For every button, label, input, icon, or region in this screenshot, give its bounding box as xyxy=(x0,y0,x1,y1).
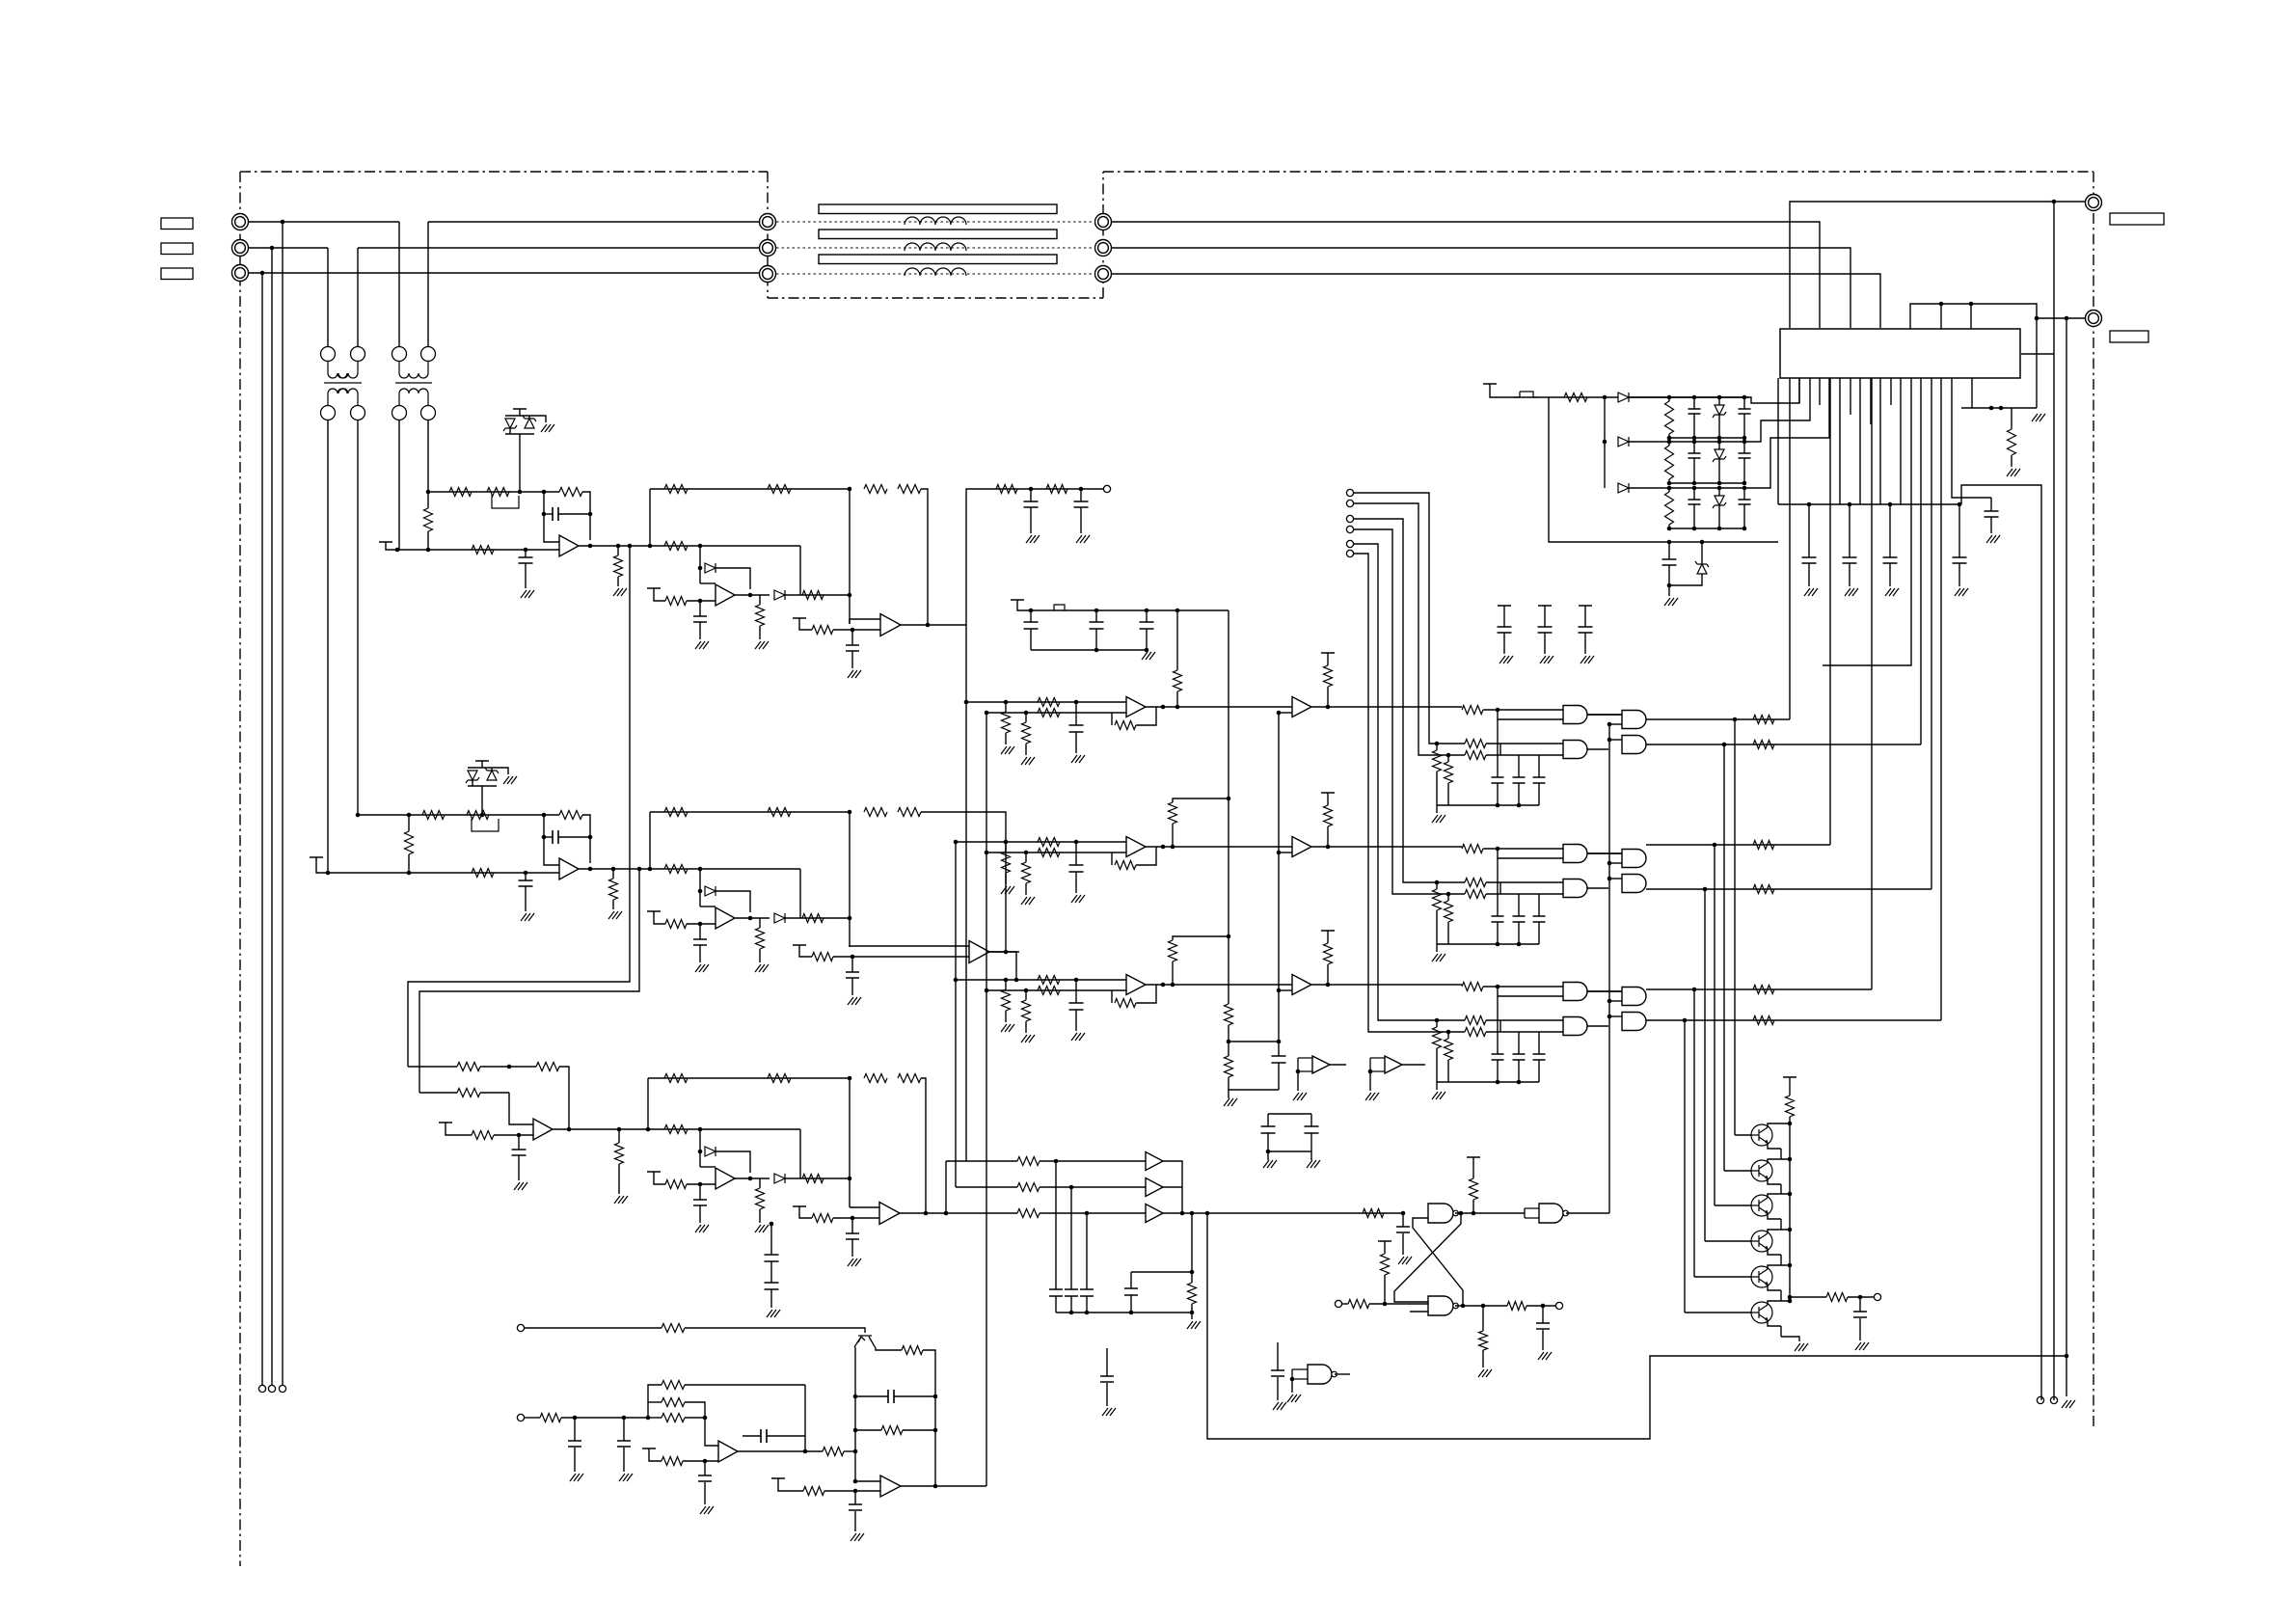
wire xyxy=(648,1417,662,1419)
terminal trip out xyxy=(1555,1302,1562,1309)
capacitor C ch1 o2 xyxy=(1074,501,1089,507)
wire xyxy=(699,924,701,939)
wire pin to H6 xyxy=(1940,378,1942,1020)
capacitor C19 xyxy=(1124,1288,1138,1295)
wire xyxy=(1718,505,1720,528)
resistor R ch3 f3 xyxy=(864,1074,887,1083)
wire pin k3 xyxy=(1900,378,1902,504)
junction xyxy=(1094,648,1099,653)
ground n4 xyxy=(1287,1394,1301,1402)
wire xyxy=(1075,1010,1077,1031)
junction xyxy=(1326,845,1331,850)
wire cross b xyxy=(1413,1218,1463,1306)
wire div bottom xyxy=(1229,1077,1279,1090)
junction xyxy=(1717,527,1722,531)
junction xyxy=(1807,502,1812,507)
wire xyxy=(1447,1032,1449,1039)
wire xyxy=(1668,479,1670,483)
resistor R ch3 load xyxy=(756,1188,765,1209)
AND gate U H1 xyxy=(1622,711,1646,729)
wire ch2 to sum xyxy=(785,917,850,919)
ground xyxy=(848,997,861,1005)
wire bus R to IC xyxy=(1111,222,1820,328)
wire xyxy=(1518,755,1520,777)
supply V19 xyxy=(1783,1076,1796,1078)
label plate output - xyxy=(2110,331,2148,342)
wire xyxy=(1075,732,1077,753)
wire xyxy=(1025,744,1027,755)
wire xyxy=(518,1135,520,1150)
junction xyxy=(1667,440,1672,445)
resistor R52 xyxy=(662,1414,685,1422)
wire xyxy=(1693,414,1695,438)
wire tvs bottom xyxy=(505,433,534,435)
junction xyxy=(542,813,547,818)
wire ch2 out3 xyxy=(989,951,1019,953)
wire xyxy=(1130,1295,1132,1313)
wire xyxy=(1327,653,1329,665)
wire xyxy=(528,416,530,419)
op-amp U ch2 out xyxy=(969,941,989,963)
wire ch1 sum up xyxy=(849,489,851,624)
wire xyxy=(685,1417,705,1419)
supply V16 xyxy=(1321,652,1335,654)
resistor R ch1 a xyxy=(449,488,472,497)
wire out stage xyxy=(1790,1296,1826,1298)
terminal ctrl 2 xyxy=(1346,500,1353,506)
junction xyxy=(1054,1159,1059,1164)
wire xyxy=(1668,442,1670,446)
wire xyxy=(946,1160,1017,1162)
ground xyxy=(1001,886,1014,894)
wire xyxy=(1327,687,1329,707)
ground ch3 ref xyxy=(514,1182,527,1190)
capacitor C2 xyxy=(1843,557,1857,563)
ground xyxy=(1499,656,1513,663)
capacitor C n4 xyxy=(1271,1370,1284,1376)
capacitor C ch3 ref xyxy=(512,1150,527,1155)
wire xyxy=(1279,989,1292,991)
wire x2 out xyxy=(1402,1064,1425,1066)
wire xyxy=(1584,606,1586,627)
wire xyxy=(1369,1303,1428,1305)
wire xyxy=(1436,882,1438,889)
buffer U S2 xyxy=(1146,1178,1163,1197)
resistor R ch1 burden xyxy=(424,508,433,531)
capacitor C10 xyxy=(1140,622,1154,629)
wire pin cap xyxy=(1958,504,1960,557)
junction xyxy=(1517,942,1522,947)
wire xyxy=(480,1092,509,1094)
zener D ladder2 xyxy=(1713,449,1726,462)
wire pin s3 xyxy=(1870,378,1872,424)
wire xyxy=(1780,1149,1782,1159)
wire base Q6 xyxy=(1685,1312,1751,1313)
resistor R7 xyxy=(1038,838,1060,847)
resistor R22 xyxy=(1017,1183,1040,1192)
AND gate U L4 xyxy=(1563,880,1587,898)
wire xyxy=(1718,442,1720,449)
capacitor C27 xyxy=(1513,1054,1526,1060)
wire bus T to IC xyxy=(1111,274,1880,328)
ground tvs1 xyxy=(541,424,554,432)
junction xyxy=(281,220,285,225)
ground xyxy=(1432,954,1445,961)
inductor L2 winding xyxy=(905,243,966,251)
wire ch1 to ch3 xyxy=(408,546,630,1067)
wire xyxy=(1497,996,1499,1054)
junction xyxy=(542,835,547,840)
ground cap mid xyxy=(1102,1408,1116,1416)
wire xyxy=(1447,755,1449,762)
terminal out B xyxy=(2050,1396,2057,1403)
wire xyxy=(1693,504,1695,528)
junction xyxy=(1607,722,1612,727)
wire xyxy=(1518,1060,1520,1082)
diode D feed1 xyxy=(1618,392,1629,402)
capacitor C7 xyxy=(1579,627,1593,633)
terminal ctrl 6 xyxy=(1346,550,1353,556)
junction xyxy=(1969,302,1974,307)
wire ch3 fb drop xyxy=(559,1067,569,1129)
wire xyxy=(1436,1048,1438,1082)
wire xyxy=(1025,990,1027,1000)
junction xyxy=(1517,1080,1522,1085)
wire supply feed xyxy=(1490,384,1749,397)
wire xyxy=(1768,1123,1790,1127)
wire xyxy=(1278,1049,1280,1051)
capacitor C aux xyxy=(1662,559,1677,565)
junction xyxy=(698,1150,703,1154)
wire xyxy=(1743,488,1745,500)
wire to Q5 xyxy=(1693,989,1695,1277)
zener D tvs1a xyxy=(503,419,517,431)
transistor Q1 xyxy=(1751,1124,1772,1146)
resistor R q fb xyxy=(902,1346,923,1355)
wire xyxy=(1327,964,1329,985)
junction xyxy=(270,246,275,251)
terminal R sense xyxy=(258,1385,265,1392)
wire base Q4 xyxy=(1705,1240,1751,1242)
capacitor C ch2 ref xyxy=(693,939,707,945)
wire xyxy=(1310,1151,1312,1160)
wire H4 out xyxy=(1646,888,1931,890)
resistor R6 xyxy=(1324,665,1333,687)
resistor R ch2 in xyxy=(664,865,688,874)
wire ch1 to sum xyxy=(785,594,850,596)
wire xyxy=(2011,455,2012,467)
junction xyxy=(1788,1299,1793,1304)
wire xyxy=(1075,872,1077,893)
diode D ch2 2 xyxy=(774,913,785,923)
junction xyxy=(933,1394,938,1399)
wire xyxy=(2052,201,2054,203)
wire ch3 to sum xyxy=(785,1177,850,1179)
wire xyxy=(855,1395,888,1397)
junction xyxy=(853,1394,858,1399)
wire ch3 fb corner xyxy=(921,1078,926,1213)
wire xyxy=(1369,1071,1371,1091)
wire xyxy=(1718,415,1720,438)
resistor R ch3 fb xyxy=(536,1063,559,1071)
resistor R30 xyxy=(1445,762,1453,783)
wire xyxy=(1291,1379,1293,1393)
wire xyxy=(700,582,716,584)
wire ch1 fb corner xyxy=(921,489,928,625)
wire xyxy=(1131,1271,1192,1273)
capacitor C31 xyxy=(617,1441,631,1447)
capacitor C14 xyxy=(1069,865,1084,872)
junction xyxy=(2035,316,2039,321)
junction xyxy=(1717,481,1722,486)
resistor R8 xyxy=(1038,849,1060,857)
AND gate U H3 xyxy=(1622,850,1646,868)
wire xyxy=(1267,1151,1269,1160)
wire xyxy=(1472,1200,1474,1213)
resistor R1 xyxy=(1038,698,1060,707)
ground n4 cap xyxy=(1273,1402,1286,1410)
ground xyxy=(570,1474,583,1481)
junction xyxy=(1541,1304,1546,1309)
junction xyxy=(853,1449,858,1454)
wire xyxy=(1327,826,1329,847)
wire col b xyxy=(986,713,987,1486)
terminal ctrl 4 xyxy=(1346,526,1353,532)
wire ch2 to ch3 xyxy=(419,869,639,1093)
wire xyxy=(1780,1219,1782,1230)
wire to Q4 xyxy=(1704,889,1706,1241)
junction xyxy=(985,851,989,855)
junction xyxy=(1788,1122,1793,1126)
ground xyxy=(851,1533,864,1541)
junction xyxy=(1939,302,1944,307)
junction xyxy=(426,490,431,495)
wire xyxy=(1538,894,1540,916)
wire xyxy=(1668,565,1670,585)
capacitor C ladder1d xyxy=(1739,409,1751,414)
wire xyxy=(1486,893,1563,895)
wire xyxy=(1095,610,1097,622)
wire xyxy=(561,1417,648,1419)
junction xyxy=(1667,486,1672,491)
wire xyxy=(1075,842,1077,865)
wire base Q1 xyxy=(1735,1134,1751,1136)
wire xyxy=(1436,910,1438,944)
capacitor C ch3 p1 xyxy=(765,1255,779,1261)
resistor R35 xyxy=(1445,901,1453,922)
wire xyxy=(509,428,511,434)
wire xyxy=(1499,1020,1501,1032)
junction xyxy=(1074,840,1079,845)
capacitor C11 xyxy=(1261,1126,1276,1133)
resistor R ch3 ref xyxy=(665,1180,687,1189)
junction xyxy=(524,871,528,876)
capacitor C33 xyxy=(849,1504,862,1510)
wire xyxy=(1055,1296,1057,1313)
wire bus R left xyxy=(249,221,399,223)
wire xyxy=(1176,610,1178,670)
resistor R15 xyxy=(1038,987,1060,995)
wire xyxy=(525,1417,540,1419)
ground IC xyxy=(2032,414,2045,421)
wire xyxy=(1176,691,1178,707)
wire H3 out xyxy=(1646,844,1830,846)
junction xyxy=(1069,1185,1074,1190)
capacitor C4 xyxy=(1953,557,1967,563)
wire ch2 down xyxy=(1015,952,1017,980)
wire xyxy=(1544,633,1546,654)
wire ch1 down xyxy=(965,625,967,1161)
junction xyxy=(1742,527,1747,531)
junction xyxy=(853,1479,858,1484)
buffer U X1 xyxy=(1312,1056,1330,1073)
junction xyxy=(698,922,703,927)
junction xyxy=(1004,978,1009,983)
wire xyxy=(1040,1212,1146,1214)
wire xyxy=(612,900,614,909)
junction xyxy=(1029,609,1034,613)
wire xyxy=(649,1448,662,1461)
wire xyxy=(525,550,527,557)
junction xyxy=(1290,1377,1295,1382)
wire pin to H3 xyxy=(1829,378,1831,845)
resistor R ch1 ref3 xyxy=(812,626,833,635)
wire xyxy=(1768,1249,1781,1255)
wire xyxy=(1279,712,1292,714)
wire xyxy=(1768,1285,1781,1290)
ground xyxy=(1001,1024,1014,1032)
resistor R ch1 in xyxy=(664,542,688,551)
wire gate in 1b xyxy=(1418,675,1465,755)
wire xyxy=(759,1178,761,1188)
wire xyxy=(1768,1265,1790,1269)
wire xyxy=(759,918,761,928)
wire xyxy=(1503,633,1505,654)
wire xyxy=(1172,961,1174,985)
junction xyxy=(1024,988,1029,993)
wire xyxy=(617,546,619,555)
wire ladder bottom rail xyxy=(1669,437,1744,439)
AND gate U H2 xyxy=(1622,736,1646,754)
supply V14 xyxy=(793,1205,806,1207)
capacitor C ladder3d xyxy=(1739,500,1751,504)
connector J8 xyxy=(1095,240,1112,257)
wire ch3 out xyxy=(553,1128,648,1130)
AND gate U H4 xyxy=(1622,875,1646,893)
resistor R blk xyxy=(881,1426,903,1435)
wire xyxy=(1587,714,1622,716)
resistor R46 xyxy=(1753,1016,1774,1025)
wire xyxy=(544,836,553,838)
junction xyxy=(1175,705,1180,710)
junction xyxy=(1607,1015,1612,1019)
wire xyxy=(1542,1306,1544,1323)
wire xyxy=(1587,990,1622,992)
wire ch1 out3 xyxy=(901,624,941,626)
junction xyxy=(1074,700,1079,705)
supply V23 xyxy=(771,1477,785,1479)
junction xyxy=(1145,648,1149,653)
input stub N4 xyxy=(1292,1369,1308,1379)
resistor R31 xyxy=(1462,845,1483,853)
wire ch1 rect out xyxy=(735,594,770,596)
connector J9 xyxy=(1095,266,1112,283)
wire xyxy=(705,1411,718,1446)
ground rail B xyxy=(2062,1400,2075,1408)
wire xyxy=(743,1435,761,1437)
junction xyxy=(1888,502,1893,507)
wire ch1 rail+ xyxy=(428,491,559,493)
ground cap rail xyxy=(1187,1321,1201,1329)
resistor R ch2 f2 xyxy=(768,808,791,817)
op-amp U A1 xyxy=(1126,697,1146,717)
junction xyxy=(1742,481,1747,486)
resistor R48 xyxy=(1479,1331,1488,1350)
ground xyxy=(755,964,769,972)
junction xyxy=(646,1127,651,1132)
AND gate U L1 xyxy=(1563,706,1587,724)
wire ch2 d1 out xyxy=(716,891,750,912)
wire bootstrap pin b xyxy=(1970,304,1972,329)
junction xyxy=(1129,1311,1134,1315)
wire row1 to pin xyxy=(1749,378,1799,403)
resistor R ch3 f4 xyxy=(898,1074,921,1083)
junction xyxy=(1014,978,1019,983)
wire xyxy=(1483,986,1563,988)
wire blk out route xyxy=(935,1485,986,1487)
junction xyxy=(507,1065,512,1069)
junction xyxy=(480,813,485,818)
resistor R50 xyxy=(662,1381,685,1390)
wire ctrl 4 xyxy=(1354,529,1392,675)
wire xyxy=(408,854,410,873)
wire xyxy=(1025,1021,1027,1033)
wire xyxy=(1279,852,1292,853)
junction xyxy=(748,916,753,921)
wire H6 out xyxy=(1646,1019,1941,1021)
supply V3 xyxy=(1579,605,1592,607)
NAND gate U FF1 xyxy=(1428,1204,1458,1223)
junction xyxy=(698,599,703,604)
junction xyxy=(1004,700,1009,705)
wire xyxy=(1768,1178,1781,1184)
capacitor C8 xyxy=(1024,622,1039,629)
wire xyxy=(1017,600,1031,610)
wire xyxy=(1498,710,1563,719)
resistor R27 xyxy=(1465,740,1486,748)
wire row2 to pin xyxy=(1749,378,1810,442)
wire collector rail xyxy=(1789,1117,1791,1297)
wire xyxy=(1889,563,1891,586)
junction xyxy=(1733,717,1738,722)
wire ch3 pair xyxy=(770,1224,772,1255)
supply V9 xyxy=(310,856,323,858)
wire filter link (dotted) xyxy=(776,247,1094,249)
junction xyxy=(1692,486,1697,491)
supply V12 xyxy=(439,1122,452,1123)
wire xyxy=(1005,873,1007,884)
transistor Q3 xyxy=(1751,1195,1772,1216)
wire xyxy=(1436,744,1438,750)
enclosure border (dash-dot) xyxy=(767,172,769,298)
input stub X1 xyxy=(1298,1058,1312,1071)
wire CT1 primary out xyxy=(357,248,359,347)
wire xyxy=(1587,853,1622,854)
wire aux xyxy=(525,1327,662,1329)
wire ctrl 3 xyxy=(1354,519,1403,675)
connector J2 phase S xyxy=(232,240,249,257)
wire pin cap xyxy=(1849,504,1850,557)
